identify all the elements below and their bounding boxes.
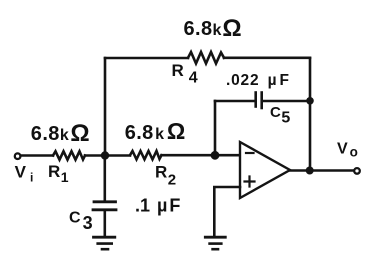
svg-text:Vi: Vi <box>15 163 34 185</box>
svg-text:6.8kΩ: 6.8kΩ <box>125 118 186 144</box>
svg-text:R1: R1 <box>48 162 69 185</box>
svg-text:R4: R4 <box>172 61 198 87</box>
svg-text:Vo: Vo <box>337 141 358 160</box>
svg-text:6.8kΩ: 6.8kΩ <box>184 15 242 42</box>
svg-text:6.8kΩ: 6.8kΩ <box>31 120 90 147</box>
svg-text:R2: R2 <box>155 163 176 189</box>
svg-text:C5: C5 <box>270 104 290 127</box>
svg-text:.1µF: .1µF <box>135 196 180 216</box>
svg-text:C3: C3 <box>69 210 93 234</box>
svg-text:.022µF: .022µF <box>226 72 290 89</box>
